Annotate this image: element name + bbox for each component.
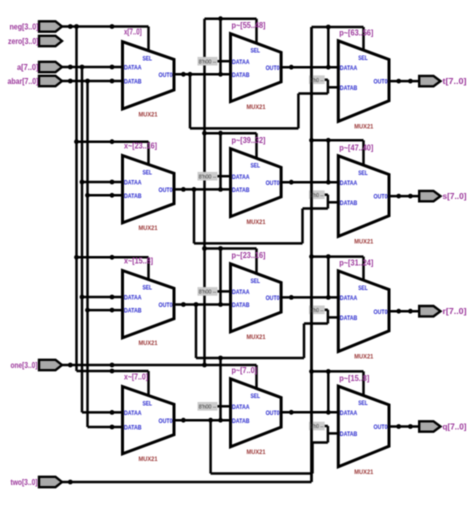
svg-text:one[3..0]: one[3..0] (11, 361, 38, 370)
svg-text:SEL: SEL (251, 163, 261, 170)
constant 8'h00 feeding p~[55..48] DATAA (198, 57, 231, 66)
wire feedback crossbar row3 (304, 322, 328, 325)
svg-text:SEL: SEL (358, 285, 368, 292)
svg-text:p~[7..0]: p~[7..0] (232, 366, 258, 375)
wire SEL row3 (neg) (74, 255, 148, 260)
label instance x~[7..0] (124, 373, 148, 382)
constant 1'h0 feeding p~[63..56] DATAB (309, 75, 328, 84)
wire SEL row2 (neg) (74, 139, 148, 144)
svg-text:p~[63..56]: p~[63..56] (339, 28, 373, 37)
wire p~[23..16] OUT0 to p~[31..24] DATAA (281, 295, 338, 300)
svg-text:MUX21: MUX21 (354, 124, 373, 131)
mux U4 x~[23..16] MUX21 (123, 156, 175, 233)
svg-text:DATAB: DATAB (124, 308, 142, 315)
svg-text:MUX21: MUX21 (354, 239, 373, 246)
mux U7 x~[15..8] MUX21 (123, 271, 175, 348)
svg-text:MUX21: MUX21 (139, 111, 158, 118)
wire feedback riser row4 (311, 443, 314, 474)
input port a[7..0] (17, 62, 62, 72)
svg-text:1'h0 --: 1'h0 -- (310, 193, 324, 199)
svg-text:MUX21: MUX21 (139, 340, 158, 347)
wire SEL net (two) to p~[31..24] (309, 254, 363, 259)
svg-text:DATAB: DATAB (124, 193, 142, 200)
svg-text:SEL: SEL (251, 393, 261, 400)
wire feedback jog vertical row2 (327, 195, 330, 209)
svg-text:OUT0: OUT0 (374, 424, 388, 431)
svg-text:x[7..0]: x[7..0] (124, 28, 142, 37)
wire feedback bottom row2 (194, 242, 303, 245)
wire SEL drop into mux x~[15..8] (147, 257, 150, 280)
constant 8'h00 feeding p~[39..32] DATAA (198, 172, 231, 181)
wire SEL net (two) to p~[15..8] (309, 369, 363, 374)
svg-text:r[7..0]: r[7..0] (443, 307, 467, 316)
wire feedback jog vertical row1 (327, 80, 330, 94)
svg-text:8'h00 --: 8'h00 -- (199, 174, 217, 180)
label instance x~[15..8] (124, 257, 153, 266)
wire DATAB row4 (abar) (88, 425, 123, 430)
wire vertical net one fanout (203, 19, 206, 365)
wire feedback riser row2 (301, 209, 304, 244)
svg-text:p~[47..40]: p~[47..40] (339, 143, 373, 152)
wire feedback drop row2 (193, 189, 196, 243)
input port neg[3..0] (10, 21, 63, 31)
svg-text:1'h0 --: 1'h0 -- (310, 78, 324, 84)
wire tie vertical row2 (219, 133, 222, 189)
svg-text:OUT0: OUT0 (159, 418, 173, 425)
wire vertical net neg fanout (75, 27, 78, 372)
svg-text:zero[3..0]: zero[3..0] (8, 37, 39, 46)
svg-text:OUT0: OUT0 (266, 410, 280, 417)
wire feedback drop row3 (195, 305, 198, 359)
mux U9 p~[31..24] MUX21 (338, 271, 389, 361)
svg-text:SEL: SEL (251, 48, 261, 55)
svg-text:abar[7..0]: abar[7..0] (8, 77, 39, 86)
constant 8'h00 feeding p~[7..0] DATAA (198, 402, 231, 411)
mux U2 p~[55..48] MUX21 (231, 34, 282, 111)
wire x[7..0] OUT0 to p~[55..48] DATAB (174, 72, 231, 77)
svg-text:two[3..0]: two[3..0] (11, 478, 38, 487)
wire two[3..0] horizontal (62, 480, 312, 485)
wire jog into p~[31..24] DATAB (328, 316, 338, 319)
svg-text:DATAB: DATAB (340, 431, 358, 438)
wire feedback bottom row1 (190, 127, 298, 130)
wire DATAA row3 (a) (80, 295, 123, 300)
value label 1'h0 of constant feeding p~[63..56] (310, 78, 324, 84)
svg-text:p~[31..24]: p~[31..24] (339, 259, 373, 268)
svg-text:8'h00 --: 8'h00 -- (199, 290, 217, 296)
value label 1'h0 of constant feeding p~[31..24] (310, 308, 324, 314)
wire p~[15..8] OUT0 to port q[7..0] (389, 424, 419, 429)
svg-text:OUT0: OUT0 (159, 302, 173, 309)
svg-text:DATAA: DATAA (232, 289, 250, 296)
svg-text:DATAB: DATAB (340, 315, 358, 322)
wire feedback bottom row4 (211, 472, 313, 475)
wire SEL net to p~[39..32] (202, 131, 256, 136)
svg-text:DATAA: DATAA (340, 295, 358, 302)
svg-text:SEL: SEL (358, 400, 368, 407)
wire SEL drop into mux p~[7..0] (255, 365, 258, 389)
wire DATAA row1 (a) (62, 65, 123, 70)
wire feedback drop row4 (209, 420, 212, 473)
wire SEL-DATAA tie row3 (327, 257, 330, 298)
svg-text:SEL: SEL (143, 285, 153, 292)
wire DATAB row2 (abar) (85, 193, 122, 198)
mux U8 p~[23..16] MUX21 (231, 264, 282, 341)
wire SEL drop into mux p~[63..56] (362, 27, 365, 50)
label instance p~[15..8] (339, 374, 369, 383)
wire vertical net abar fanout (86, 81, 89, 427)
wire x~[23..16] OUT0 to p~[39..32] DATAB (174, 187, 231, 192)
svg-text:p~[39..32]: p~[39..32] (232, 136, 266, 145)
svg-text:OUT0: OUT0 (266, 180, 280, 187)
svg-text:MUX21: MUX21 (247, 219, 266, 226)
svg-text:MUX21: MUX21 (247, 104, 266, 111)
wire feedback drop row1 (189, 74, 192, 128)
wire p~[63..56] OUT0 to port t[7..0] (389, 79, 419, 84)
wire vertical net two fanout (310, 27, 313, 482)
svg-text:t[7..0]: t[7..0] (443, 77, 467, 86)
svg-text:DATAA: DATAA (124, 410, 142, 417)
svg-text:x~[15..8]: x~[15..8] (124, 257, 153, 266)
svg-text:DATAA: DATAA (340, 180, 358, 187)
mux U5 p~[39..32] MUX21 (231, 149, 282, 226)
wire p~[7..0] OUT0 to p~[15..8] DATAA (281, 410, 338, 415)
wire one[3..0] to mux p~[7..0] SEL (62, 356, 257, 368)
svg-text:8'h00 --: 8'h00 -- (199, 59, 217, 65)
wire SEL net to p~[55..48] (205, 16, 257, 21)
svg-text:OUT0: OUT0 (266, 295, 280, 302)
wire feedback bottom row3 (196, 357, 304, 360)
label instance p~[47..40] (339, 143, 373, 152)
wire DATAB row3 (abar) (85, 308, 122, 313)
svg-text:OUT0: OUT0 (266, 65, 280, 72)
label instance p~[23..16] (232, 251, 266, 260)
wire tie vertical row3 (219, 249, 222, 305)
input port one[3..0] (11, 360, 63, 370)
input port two[3..0] (11, 477, 63, 487)
svg-text:DATAB: DATAB (232, 418, 250, 425)
label instance p~[63..56] (339, 28, 373, 37)
wire jog into p~[47..40] DATAB (328, 201, 338, 204)
wire SEL drop into mux x~[23..16] (147, 142, 150, 165)
svg-text:MUX21: MUX21 (247, 449, 266, 456)
wire jog into p~[63..56] DATAB (328, 86, 338, 89)
svg-text:OUT0: OUT0 (374, 194, 388, 201)
svg-text:DATAB: DATAB (340, 85, 358, 92)
wire DATAA row4 (a) (82, 410, 123, 415)
svg-text:DATAA: DATAA (232, 59, 250, 66)
svg-text:s[7..0]: s[7..0] (443, 192, 467, 201)
wire jog into p~[15..8] DATAB (328, 432, 338, 435)
wire feedback riser row1 (297, 94, 300, 129)
input port zero[3..0] (8, 36, 62, 46)
svg-text:MUX21: MUX21 (247, 334, 266, 341)
svg-text:DATAA: DATAA (232, 174, 250, 181)
svg-text:p~[23..16]: p~[23..16] (232, 251, 266, 260)
wire SEL drop into mux p~[39..32] (255, 133, 258, 158)
wire SEL drop into mux p~[55..48] (255, 19, 258, 44)
constant 1'h0 feeding p~[47..40] DATAB (309, 190, 328, 199)
wire SEL row4 (neg) (77, 369, 149, 374)
svg-text:x~[7..0]: x~[7..0] (124, 373, 148, 382)
output port r[7..0] (419, 306, 467, 316)
output port s[7..0] (419, 191, 467, 201)
wire feedback crossbar row1 (298, 92, 328, 95)
svg-text:8'h00 --: 8'h00 -- (199, 405, 217, 411)
wire SEL-DATAA tie row2 (327, 140, 330, 182)
wire feedback jog vertical row4 (327, 426, 330, 443)
wire DATAB row1 (abar) (62, 79, 123, 84)
wire p~[39..32] OUT0 to p~[47..40] DATAA (281, 180, 338, 185)
svg-text:DATAA: DATAA (340, 65, 358, 72)
wire SEL-DATAA tie row1 (327, 27, 330, 67)
svg-text:DATAA: DATAA (232, 404, 250, 411)
label instance x[7..0] (124, 28, 142, 37)
constant 8'h00 feeding p~[23..16] DATAA (198, 287, 231, 296)
svg-text:x~[23..16]: x~[23..16] (124, 142, 157, 151)
wire SEL-DATAA tie row4 (327, 371, 330, 412)
label instance x~[23..16] (124, 142, 157, 151)
wire tie vertical row4 (219, 358, 222, 420)
svg-text:neg[3..0]: neg[3..0] (10, 23, 39, 32)
wire SEL row1 (neg) (62, 24, 149, 29)
wire SEL net (two) to p~[63..56] (312, 25, 364, 30)
label instance p~[7..0] (232, 366, 258, 375)
wire x~[15..8] OUT0 to p~[23..16] DATAB (174, 302, 231, 307)
mux U3 p~[63..56] MUX21 (338, 41, 389, 131)
svg-text:p~[55..48]: p~[55..48] (232, 21, 266, 30)
svg-text:SEL: SEL (358, 170, 368, 177)
svg-text:SEL: SEL (143, 170, 153, 177)
svg-text:SEL: SEL (143, 401, 153, 408)
svg-text:DATAA: DATAA (124, 295, 142, 302)
wire SEL drop into mux p~[15..8] (362, 371, 365, 395)
constant 1'h0 feeding p~[31..24] DATAB (309, 306, 328, 315)
wire vertical net two fanout (overdraw) (310, 27, 313, 482)
label instance p~[31..24] (339, 259, 373, 268)
wire x~[7..0] OUT0 to p~[7..0] DATAB (174, 418, 231, 423)
svg-text:a[7..0]: a[7..0] (17, 63, 39, 72)
constant 1'h0 feeding p~[15..8] DATAB (309, 422, 328, 431)
svg-text:DATAB: DATAB (232, 187, 250, 194)
svg-text:DATAA: DATAA (340, 410, 358, 417)
svg-text:MUX21: MUX21 (354, 469, 373, 476)
wire SEL net (two) to p~[47..40] (309, 138, 363, 143)
label instance p~[39..32] (232, 136, 266, 145)
wire SEL net to p~[23..16] (202, 246, 256, 251)
wire DATAA row2 (a) (80, 180, 123, 185)
wire feedback riser row3 (303, 324, 306, 359)
wire tie vertical row1 (219, 19, 222, 75)
svg-text:DATAB: DATAB (340, 200, 358, 207)
mux U12 p~[15..8] MUX21 (338, 386, 389, 476)
wire p~[31..24] OUT0 to port r[7..0] (389, 309, 419, 314)
svg-text:MUX21: MUX21 (139, 456, 158, 463)
output port q[7..0] (419, 421, 467, 431)
mux U11 p~[7..0] MUX21 (231, 379, 282, 456)
svg-text:DATAA: DATAA (124, 180, 142, 187)
svg-text:MUX21: MUX21 (354, 354, 373, 361)
value label 1'h0 of constant feeding p~[15..8] (310, 424, 324, 430)
mux U10 x~[7..0] MUX21 (123, 387, 175, 464)
svg-text:DATAB: DATAB (124, 79, 142, 86)
wire feedback jog vertical row3 (327, 310, 330, 324)
output port t[7..0] (419, 76, 467, 86)
wire SEL drop into mux p~[47..40] (362, 140, 365, 165)
wire p~[55..48] OUT0 to p~[63..56] DATAA (281, 65, 338, 70)
wire feedback crossbar row2 (303, 207, 328, 210)
svg-text:1'h0 --: 1'h0 -- (310, 308, 324, 314)
input port abar[7..0] (8, 76, 63, 86)
value label 1'h0 of constant feeding p~[47..40] (310, 193, 324, 199)
wire p~[47..40] OUT0 to port s[7..0] (389, 194, 419, 199)
svg-text:DATAA: DATAA (124, 65, 142, 72)
wire SEL drop into mux x[7..0] (147, 27, 150, 52)
svg-text:DATAB: DATAB (232, 72, 250, 79)
wire vertical net a fanout (81, 67, 84, 412)
svg-text:SEL: SEL (251, 278, 261, 285)
svg-text:OUT0: OUT0 (374, 309, 388, 316)
svg-text:q[7..0]: q[7..0] (443, 423, 467, 432)
svg-text:MUX21: MUX21 (139, 225, 158, 232)
label instance p~[55..48] (232, 21, 266, 30)
svg-text:OUT0: OUT0 (159, 187, 173, 194)
mux U6 p~[47..40] MUX21 (338, 156, 389, 246)
wire SEL drop into mux p~[23..16] (255, 249, 258, 274)
wire SEL drop into mux x~[7..0] (147, 371, 150, 396)
svg-text:DATAB: DATAB (124, 425, 142, 432)
svg-text:OUT0: OUT0 (374, 79, 388, 86)
svg-text:SEL: SEL (358, 55, 368, 62)
svg-text:p~[15..8]: p~[15..8] (339, 374, 369, 383)
svg-text:SEL: SEL (143, 56, 153, 63)
wire SEL drop into mux p~[31..24] (362, 257, 365, 281)
svg-text:DATAB: DATAB (232, 302, 250, 309)
svg-text:OUT0: OUT0 (159, 72, 173, 79)
wire feedback crossbar row4 (313, 441, 328, 444)
mux U1 x[7..0] MUX21 (123, 42, 175, 119)
svg-text:1'h0 --: 1'h0 -- (310, 424, 324, 430)
